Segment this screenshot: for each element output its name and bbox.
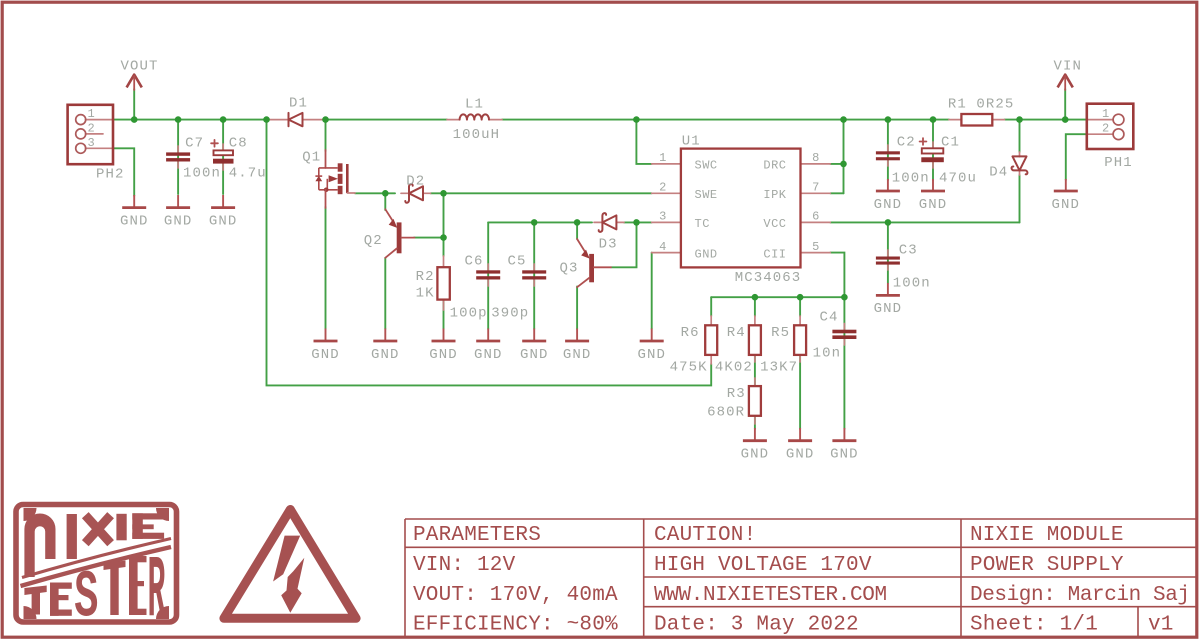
- svg-text:475K: 475K: [670, 359, 708, 375]
- svg-text:GND: GND: [563, 347, 592, 363]
- svg-text:3: 3: [659, 210, 667, 224]
- svg-text:4K02: 4K02: [715, 359, 753, 375]
- svg-text:SWE: SWE: [695, 188, 718, 202]
- svg-text:2: 2: [659, 181, 667, 195]
- svg-text:390p: 390p: [491, 306, 529, 322]
- svg-text:C5: C5: [508, 254, 527, 270]
- svg-text:Date: 3 May 2022: Date: 3 May 2022: [654, 614, 859, 637]
- svg-text:680R: 680R: [707, 405, 745, 421]
- svg-text:VOUT: 170V, 40mA: VOUT: 170V, 40mA: [413, 584, 618, 607]
- svg-text:TC: TC: [695, 217, 710, 231]
- svg-text:GND: GND: [164, 214, 193, 230]
- svg-text:5: 5: [812, 240, 820, 254]
- svg-text:GND: GND: [786, 447, 815, 463]
- svg-text:PH1: PH1: [1104, 155, 1133, 171]
- svg-text:VOUT: VOUT: [121, 59, 159, 75]
- svg-text:C7: C7: [185, 135, 204, 151]
- svg-text:U1: U1: [682, 134, 701, 150]
- svg-text:VCC: VCC: [763, 217, 786, 231]
- svg-text:R4: R4: [727, 325, 746, 341]
- svg-text:100uH: 100uH: [453, 127, 501, 143]
- svg-text:1: 1: [1102, 107, 1110, 121]
- svg-text:MC34063: MC34063: [735, 270, 802, 286]
- svg-text:R3: R3: [727, 386, 746, 402]
- svg-text:VIN: VIN: [1054, 59, 1083, 75]
- svg-text:GND: GND: [695, 247, 718, 261]
- svg-text:PH2: PH2: [96, 167, 125, 183]
- svg-text:R2: R2: [416, 269, 435, 285]
- svg-text:8: 8: [812, 151, 820, 165]
- svg-text:v1: v1: [1148, 614, 1174, 637]
- svg-text:Q3: Q3: [560, 261, 579, 277]
- svg-text:C6: C6: [465, 254, 484, 270]
- svg-text:D2: D2: [406, 173, 425, 189]
- svg-text:D3: D3: [599, 237, 618, 253]
- svg-text:C8: C8: [229, 135, 248, 151]
- svg-text:GND: GND: [311, 347, 340, 363]
- svg-text:2: 2: [1102, 122, 1110, 136]
- svg-text:GND: GND: [830, 447, 859, 463]
- svg-text:7: 7: [812, 181, 820, 195]
- svg-text:CII: CII: [763, 247, 786, 261]
- svg-text:GND: GND: [120, 214, 149, 230]
- svg-text:100n: 100n: [183, 166, 221, 182]
- svg-text:POWER SUPPLY: POWER SUPPLY: [970, 554, 1124, 577]
- svg-text:Q1: Q1: [302, 149, 321, 165]
- svg-text:6: 6: [812, 210, 820, 224]
- svg-text:R: R: [148, 541, 166, 641]
- svg-text:L1: L1: [465, 96, 484, 112]
- svg-text:VIN: 12V: VIN: 12V: [413, 554, 516, 577]
- svg-text:100n: 100n: [893, 275, 931, 291]
- svg-text:IPK: IPK: [763, 188, 786, 202]
- svg-text:D4: D4: [989, 165, 1008, 181]
- svg-text:4: 4: [659, 240, 667, 254]
- svg-text:DRC: DRC: [763, 159, 786, 173]
- svg-text:100p: 100p: [450, 306, 488, 322]
- svg-text:1: 1: [659, 151, 667, 165]
- svg-text:C1: C1: [941, 134, 960, 150]
- svg-text:NIXIE MODULE: NIXIE MODULE: [970, 524, 1124, 547]
- svg-text:R5: R5: [771, 325, 790, 341]
- svg-text:1: 1: [88, 107, 96, 121]
- svg-text:GND: GND: [520, 347, 549, 363]
- svg-text:GND: GND: [741, 447, 770, 463]
- svg-text:2: 2: [88, 122, 96, 136]
- svg-text:10n: 10n: [813, 345, 842, 361]
- svg-text:GND: GND: [371, 347, 400, 363]
- svg-text:SWC: SWC: [695, 159, 718, 173]
- svg-text:CAUTION!: CAUTION!: [654, 524, 756, 547]
- svg-text:Q2: Q2: [364, 233, 383, 249]
- svg-text:3: 3: [88, 136, 96, 150]
- svg-text:13K7: 13K7: [760, 359, 798, 375]
- svg-text:GND: GND: [209, 214, 238, 230]
- svg-text:HIGH VOLTAGE 170V: HIGH VOLTAGE 170V: [654, 554, 872, 577]
- svg-text:GND: GND: [474, 347, 503, 363]
- svg-text:D1: D1: [289, 95, 308, 111]
- svg-text:PARAMETERS: PARAMETERS: [413, 524, 541, 547]
- svg-text:C2: C2: [897, 134, 916, 150]
- svg-text:GND: GND: [429, 347, 458, 363]
- svg-text:C3: C3: [899, 243, 918, 259]
- svg-text:Design: Marcin Saj: Design: Marcin Saj: [970, 584, 1190, 607]
- svg-text:100n: 100n: [892, 170, 930, 186]
- svg-text:WWW.NIXIETESTER.COM: WWW.NIXIETESTER.COM: [654, 584, 887, 607]
- svg-text:GND: GND: [919, 197, 948, 213]
- svg-text:GND: GND: [637, 347, 666, 363]
- svg-text:R1 0R25: R1 0R25: [948, 97, 1015, 113]
- svg-text:C4: C4: [820, 310, 839, 326]
- svg-text:GND: GND: [874, 197, 903, 213]
- svg-text:GND: GND: [874, 301, 903, 317]
- svg-text:EFFICIENCY: ~80%: EFFICIENCY: ~80%: [413, 614, 618, 637]
- svg-text:Sheet: 1/1: Sheet: 1/1: [970, 614, 1098, 637]
- svg-text:R6: R6: [681, 325, 700, 341]
- svg-text:1K: 1K: [416, 286, 435, 302]
- svg-text:4.7u: 4.7u: [229, 166, 267, 182]
- svg-text:470u: 470u: [939, 170, 977, 186]
- svg-text:S: S: [74, 560, 98, 636]
- svg-text:GND: GND: [1052, 197, 1081, 213]
